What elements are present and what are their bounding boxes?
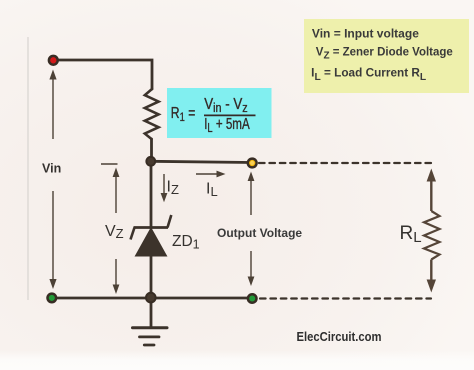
- svg-text:Vin = Input voltage: Vin = Input voltage: [312, 28, 419, 40]
- svg-text:IL: IL: [206, 181, 218, 200]
- svg-text:IZ: IZ: [167, 179, 179, 198]
- svg-text:VZ: VZ: [105, 223, 124, 241]
- svg-text:Vin - Vz: Vin - Vz: [204, 96, 248, 115]
- svg-text:Output Voltage: Output Voltage: [217, 226, 302, 240]
- svg-text:ElecCircuit.com: ElecCircuit.com: [297, 330, 382, 344]
- svg-text:Vin: Vin: [42, 162, 61, 176]
